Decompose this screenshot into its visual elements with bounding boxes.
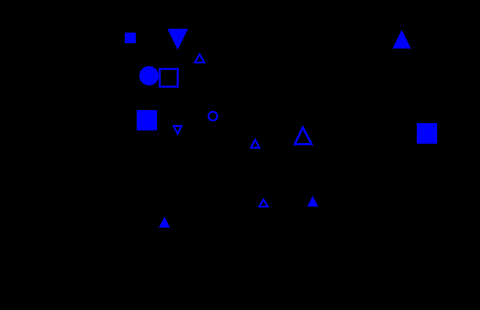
marker 2: large filled down-triangle	[167, 29, 188, 50]
marker 7: small open down-triangle	[174, 126, 182, 134]
marker 5: large open square	[160, 69, 178, 87]
marker 10: large open up-triangle	[295, 127, 312, 144]
marker 8: small open circle	[209, 112, 218, 121]
marker 14: large filled up-triangle	[393, 30, 411, 49]
marker 6: large filled square	[137, 110, 157, 130]
marker 9: small open up-triangle	[251, 140, 259, 148]
marker 11: small open up-triangle	[259, 200, 268, 207]
marker 12: small filled up-triangle	[307, 196, 318, 207]
marker 4: large filled circle	[139, 66, 158, 85]
marker 1: small filled square	[125, 33, 136, 44]
marker 13: small filled up-triangle	[159, 217, 170, 228]
marker 3: small open up-triangle	[195, 54, 204, 62]
marker 15: large filled square	[417, 123, 437, 144]
